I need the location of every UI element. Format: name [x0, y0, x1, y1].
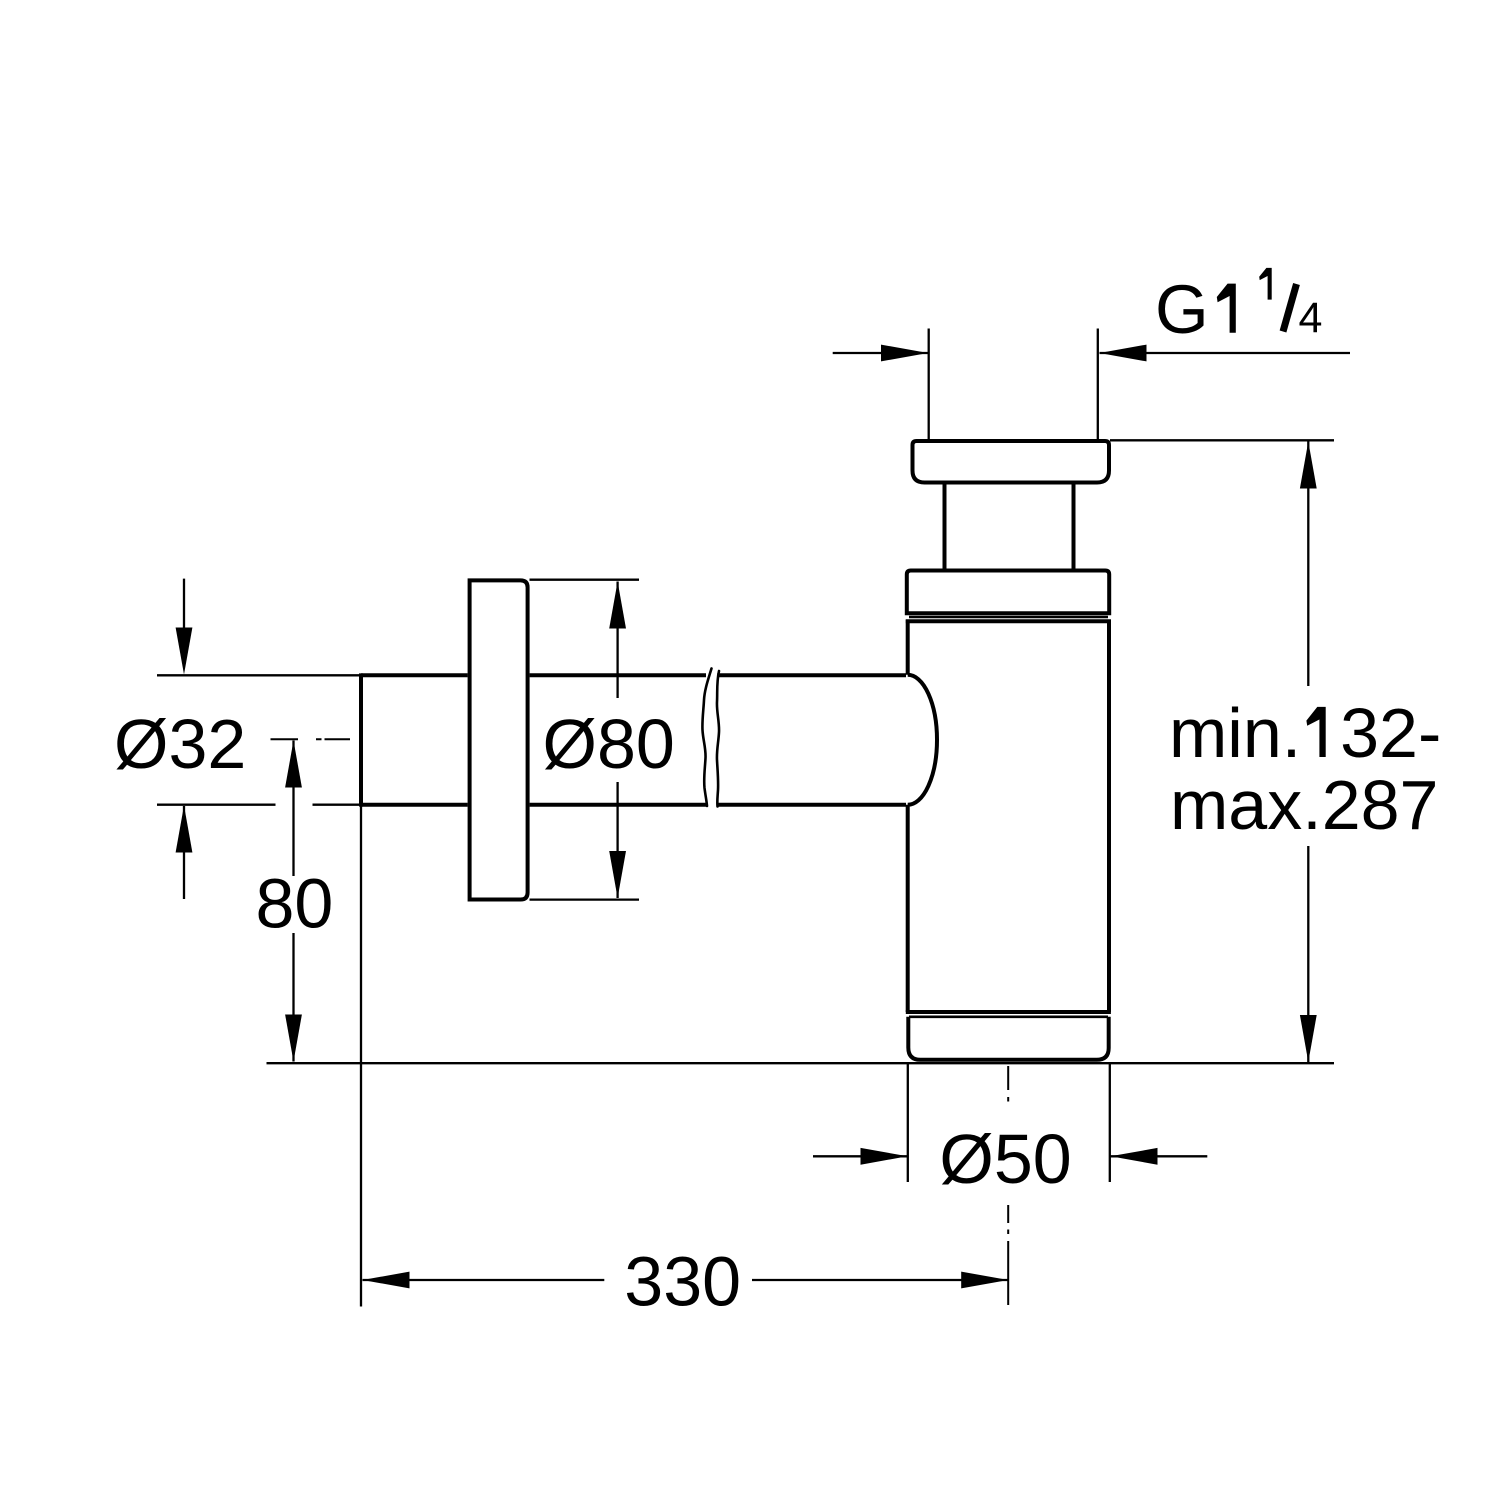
svg-text:Ø80: Ø80 [543, 705, 675, 783]
svg-text:min.: min. [1169, 694, 1301, 772]
svg-text:Ø32: Ø32 [114, 705, 246, 783]
svg-text:80: 80 [256, 865, 334, 943]
svg-text:max.287: max.287 [1170, 766, 1438, 844]
svg-text:G: G [1155, 271, 1209, 348]
svg-text:330: 330 [624, 1243, 741, 1321]
svg-text:4: 4 [1299, 294, 1323, 342]
svg-text:Ø50: Ø50 [939, 1120, 1071, 1198]
svg-text:32-: 32- [1340, 694, 1441, 772]
